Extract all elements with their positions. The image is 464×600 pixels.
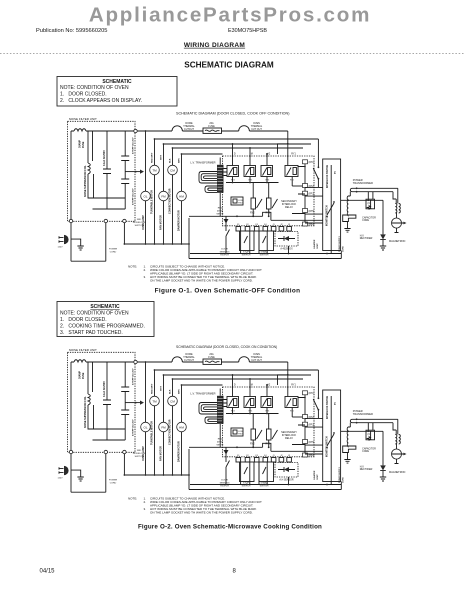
svg-text:NOTE: CONDITION OF OVEN: NOTE: CONDITION OF OVEN [60, 311, 129, 317]
svg-text:04/15: 04/15 [40, 569, 56, 575]
svg-text:A-4029BOX: A-4029BOX [280, 248, 293, 251]
svg-text:NOTE:: NOTE: [128, 497, 137, 501]
svg-text:1. DOOR CLOSED.: 1. DOOR CLOSED. [60, 317, 107, 323]
svg-text:8: 8 [233, 569, 237, 575]
svg-text:SCHEMATIC DIAGRAM (DOOR CLOSED: SCHEMATIC DIAGRAM (DOOR CLOSED, COOK OFF… [176, 111, 289, 115]
svg-text:ON THE LAMP SOCKET AND TH WHIT: ON THE LAMP SOCKET AND TH WHITE ON THE P… [150, 278, 253, 282]
svg-text:2.: 2. [144, 500, 147, 504]
svg-text:3.: 3. [144, 275, 147, 279]
svg-text:Publication No: 5995660205: Publication No: 5995660205 [36, 28, 107, 34]
svg-text:NOTE: CONDITION OF OVEN: NOTE: CONDITION OF OVEN [60, 85, 129, 91]
svg-text:A.H SENSOR: A.H SENSOR [279, 479, 294, 482]
svg-text:1. DOOR CLOSED.: 1. DOOR CLOSED. [60, 92, 107, 98]
svg-text:WIRING DIAGRAM: WIRING DIAGRAM [184, 42, 245, 49]
svg-text:SCHEMATIC DIAGRAM (DOOR CLOSED: SCHEMATIC DIAGRAM (DOOR CLOSED, COOK ON … [176, 345, 277, 349]
svg-text:SCHEMATIC: SCHEMATIC [90, 304, 120, 310]
svg-text:3.: 3. [144, 507, 147, 511]
svg-text:AppliancePartsPros.com: AppliancePartsPros.com [89, 4, 371, 27]
svg-text:2.: 2. [144, 268, 147, 272]
svg-text:SCHEMATIC DIAGRAM: SCHEMATIC DIAGRAM [184, 61, 274, 70]
svg-text:3. START PAD TOUCHED.: 3. START PAD TOUCHED. [60, 330, 123, 336]
svg-text:2. CLOCK APPEARS ON DISPLAY.: 2. CLOCK APPEARS ON DISPLAY. [60, 98, 142, 104]
svg-text:ON THE LAMP SOCKET AND TH WHIT: ON THE LAMP SOCKET AND TH WHITE ON THE P… [150, 510, 253, 514]
svg-text:E30MO75HPSB: E30MO75HPSB [228, 28, 267, 34]
svg-text:Figure O-1. Oven Schematic-OFF: Figure O-1. Oven Schematic-OFF Condition [155, 288, 301, 295]
svg-text:Figure O-2. Oven Schematic-Mic: Figure O-2. Oven Schematic-Microwave Coo… [138, 523, 322, 530]
svg-text:NOTE:: NOTE: [128, 265, 137, 269]
svg-text:2. COOKING TIME PROGRAMMED.: 2. COOKING TIME PROGRAMMED. [60, 324, 145, 330]
